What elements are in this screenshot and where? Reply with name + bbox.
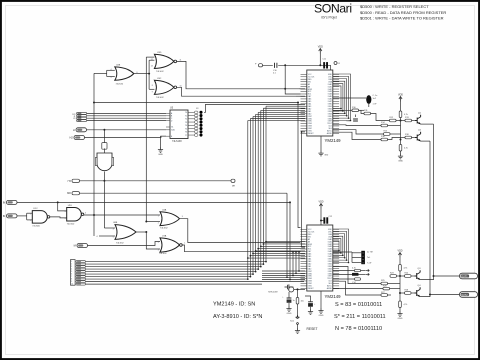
ground analog bottom: [397, 311, 402, 316]
svg-text:AGND: AGND: [327, 287, 333, 290]
wire U7A output to IC2: [182, 245, 300, 252]
svg-text:9: 9: [71, 281, 72, 283]
wire mix A node: [396, 120, 405, 122]
junction dot U2B out: [148, 73, 150, 75]
ribbon connector pin pads: [76, 261, 86, 286]
svg-text:S = 83 = 01010011: S = 83 = 01010011: [335, 302, 382, 308]
svg-text:1: 1: [158, 216, 159, 218]
capacitor C11 polarized on rail: [323, 62, 325, 68]
wire to OUT2 connector: [430, 294, 460, 296]
junction dot U6B out: [145, 231, 147, 233]
svg-text:GND: GND: [398, 161, 403, 163]
capacitor C14 black: [352, 273, 359, 276]
wire header top to IC1 A9 pin: [204, 104, 302, 112]
svg-text:GND: GND: [324, 155, 329, 157]
svg-text:Y6: Y6: [185, 132, 187, 134]
wire U6B out to riser: [136, 231, 146, 233]
wire VDD down to rail: [319, 54, 321, 66]
wire U4A output to IC2: [180, 219, 301, 243]
svg-text:Y5: Y5: [185, 128, 187, 130]
svg-text:74LS00: 74LS00: [32, 226, 40, 228]
svg-text:MR: MR: [232, 186, 236, 188]
decoder left pins: [166, 113, 170, 136]
svg-text:iOr's Projet: iOr's Projet: [321, 16, 337, 20]
dots on IC2 control drops: [286, 270, 300, 280]
junction dots on IC2 loopbacks: [338, 250, 349, 264]
svg-text:U4A: U4A: [162, 208, 167, 211]
svg-text:74LS02: 74LS02: [159, 253, 167, 255]
junction dot buffer out: [103, 180, 105, 182]
resistor R12 mix A: [390, 119, 397, 122]
svg-text:7: 7: [71, 276, 72, 278]
resistor R10: [352, 109, 359, 112]
wire U1D output long line: [84, 214, 160, 216]
svg-text:Y0: Y0: [185, 112, 187, 114]
wire R29 to ground: [399, 308, 401, 312]
svg-text:2: 2: [158, 242, 159, 244]
wire U3D output run BDIR: [177, 61, 299, 88]
junction dot rail drop crossing: [284, 88, 286, 90]
svg-text:1u: 1u: [293, 300, 295, 302]
wire node to R18: [401, 137, 406, 139]
wire R10 to R11: [359, 109, 365, 111]
svg-text:H2: H2: [69, 136, 73, 140]
IC U9 YM2149 body: [307, 225, 333, 291]
wire C17 wiring: [310, 298, 312, 302]
svg-text:5: 5: [71, 271, 72, 273]
wire C16 to ground: [288, 303, 290, 306]
wire R17 to node: [400, 118, 402, 121]
wire IN2 to U1C: [17, 215, 27, 217]
wire VDD to IC2: [320, 209, 322, 226]
wire IN1 branch down to U1D input: [58, 202, 67, 211]
svg-text:74LS32: 74LS32: [116, 243, 124, 245]
wire to OUT1 connector: [434, 275, 461, 277]
ground under C17: [308, 309, 313, 314]
svg-text:C, 1n: C, 1n: [373, 95, 378, 97]
resistor R2 vertical: [102, 143, 107, 150]
wire riser to gate A and B inputs: [148, 60, 150, 89]
svg-text:5: 5: [111, 77, 112, 79]
wire R24 to Q3: [411, 275, 415, 277]
wire riser x146 to U7A input: [146, 232, 160, 249]
svg-text:Y4: Y4: [185, 125, 187, 127]
wire MR line: [80, 192, 288, 194]
decoder right pins to header: [188, 112, 195, 135]
svg-text:RESET: RESET: [307, 327, 318, 331]
svg-text:Y3: Y3: [185, 122, 187, 124]
output header J3 black pins: [199, 111, 202, 137]
nor-gate U3C: [154, 80, 174, 94]
wire 7B line: [80, 180, 232, 182]
wire H to decoder: [87, 129, 167, 131]
svg-text:VDD: VDD: [398, 94, 403, 97]
connector IN3 M: [77, 244, 88, 248]
wire T1 to IC2 reset pin: [294, 288, 306, 290]
svg-text:2: 2: [71, 264, 72, 266]
svg-text:VDD: VDD: [318, 201, 323, 204]
connector stub 7B: [72, 179, 80, 182]
svg-text:74LS138: 74LS138: [172, 140, 182, 143]
wire IC1 channel to mix: [359, 110, 365, 113]
header J4 right of IC2: [361, 251, 365, 264]
crystal stub right of rail: [334, 62, 337, 65]
wire node A to node2: [400, 121, 402, 144]
decoder ground stub: [161, 136, 167, 147]
svg-text:6: 6: [71, 274, 72, 276]
wire rail drop to control line: [285, 65, 300, 94]
VDD arrow above IC1: [319, 49, 322, 54]
svg-text:YM2149: YM2149: [325, 294, 342, 299]
resistor R25: [381, 282, 388, 285]
svg-text:SONari: SONari: [314, 2, 352, 16]
svg-text:4,7k: 4,7k: [404, 114, 408, 116]
IC U9 right pins: [333, 229, 339, 288]
junction dot OUT1 bus: [433, 275, 435, 277]
wire select drop to IC2 top: [298, 103, 301, 228]
wire Q2 emitter to out bus 2: [421, 140, 430, 142]
wire BDIR feed IC2 stub: [298, 252, 300, 271]
IC U8 right pins: [333, 74, 339, 133]
svg-text:2: 2: [158, 222, 159, 224]
svg-text:10k: 10k: [301, 301, 304, 303]
wire long select line y102: [94, 102, 298, 104]
wire VCC rail above IC1: [262, 64, 331, 66]
svg-text:4,7k: 4,7k: [352, 267, 356, 269]
svg-text:Y7: Y7: [185, 135, 187, 137]
wire mix node A bottom: [397, 275, 405, 277]
svg-text:11: 11: [180, 60, 182, 62]
svg-text:IN: IN: [3, 214, 6, 218]
wire cap stub: [321, 220, 323, 222]
svg-text:4,7k: 4,7k: [404, 148, 408, 150]
resistor R28 to Q4: [405, 292, 412, 295]
connector IN2: [7, 214, 18, 218]
svg-text:3: 3: [71, 266, 72, 268]
ferrite bead L1: [366, 95, 371, 104]
junction dots on loopbacks: [340, 108, 351, 122]
wire IN1 drop to IC2: [289, 202, 291, 279]
svg-text:4: 4: [65, 211, 66, 213]
wire feed mixer from IC2 chA: [333, 267, 381, 284]
svg-text:MR: MR: [67, 192, 71, 195]
svg-text:GND: GND: [319, 315, 324, 317]
svg-text:8: 8: [71, 279, 72, 281]
wire bead down: [368, 104, 370, 107]
connector block J1 4 pins: [77, 112, 87, 114]
svg-text:GND: GND: [398, 318, 403, 320]
wire U1C out to U1D: [50, 217, 67, 218]
svg-text:74LS32: 74LS32: [116, 84, 124, 86]
svg-text:M: M: [74, 244, 76, 248]
wire R15 wiring: [333, 130, 384, 134]
node dot mix B: [400, 139, 402, 141]
wire U2B output to riser: [134, 73, 149, 75]
wire IC1 ground stub: [320, 136, 322, 151]
svg-text:U7A: U7A: [162, 234, 167, 237]
svg-text:74LS02: 74LS02: [156, 71, 164, 73]
IC U9 left pins: [301, 229, 307, 288]
IC U8 YM2149 body: [307, 70, 333, 136]
wire out bus B down to OUT2: [429, 141, 431, 294]
svg-text:13: 13: [151, 65, 153, 67]
wire MR drop to IC2: [286, 193, 288, 277]
bus branch dots: [247, 241, 267, 259]
svg-text:10: 10: [71, 284, 73, 286]
ribbon wire 9: [86, 281, 305, 283]
wire out bus A down to OUT1: [433, 124, 435, 276]
svg-text:OUT2: OUT2: [461, 294, 468, 297]
svg-text:Y2: Y2: [185, 119, 187, 121]
ground under C16: [286, 306, 291, 311]
node dot mix A: [400, 120, 402, 122]
connector OUT1: [460, 273, 478, 279]
capacitor C17 polarized: [308, 302, 313, 304]
svg-text:10: 10: [180, 85, 182, 87]
ground under decoder: [158, 147, 163, 152]
resistor R24 to Q3: [405, 275, 412, 278]
resistor R14: [381, 124, 388, 127]
wire switch to ground: [297, 324, 299, 328]
junction dot IN1 at x57: [57, 201, 59, 203]
wire IC2 to J4 bracket: [333, 251, 352, 253]
junction dot IN1 at x290: [289, 201, 291, 203]
svg-text:H: H: [73, 128, 75, 132]
svg-text:Y1: Y1: [185, 115, 187, 117]
wire IN1 long line: [17, 201, 290, 203]
transistor Q3: [415, 270, 421, 279]
ground under IC1: [318, 151, 323, 156]
connector stub MR2: [72, 192, 80, 195]
node dot mix bottom B: [399, 292, 401, 294]
svg-text:9: 9: [152, 91, 153, 93]
wire Q4 emitter to OUT2: [420, 295, 430, 297]
IC U8 pin name text: [308, 74, 333, 135]
resistor R11: [364, 112, 371, 115]
ribbon wires: [86, 262, 267, 280]
capacitor C10 inline on rail: [273, 63, 278, 69]
wire node A to node B bottom: [399, 276, 401, 298]
wire riser x104 segment: [103, 130, 105, 143]
wire long riser x146 from top: [145, 57, 147, 221]
svg-text:4: 4: [113, 228, 114, 230]
wire Q3 emitter to OUT1: [420, 276, 433, 280]
connector stub F left of rail: [259, 64, 263, 67]
resistor R23 mix: [390, 275, 397, 278]
wire IN3 to U7A: [88, 242, 161, 246]
svg-text:RESET: RESET: [308, 133, 315, 135]
wire feedback riser x94: [93, 73, 95, 236]
resistor R17 pullup: [399, 111, 402, 118]
connector OUT2: [460, 292, 478, 298]
svg-text:1: 1: [184, 243, 185, 245]
wire BDIR to IC1 pin: [299, 88, 305, 90]
wire R25 to node: [388, 283, 401, 285]
wire VDD down bottom: [399, 258, 401, 265]
nor-gate U3D: [154, 54, 174, 68]
loopback wires right of IC1: [333, 74, 351, 121]
nor-gate U7A: [160, 238, 180, 252]
decoder U5 74LS138 body: [170, 110, 188, 139]
wire G1 input feed: [94, 72, 107, 74]
or-gate U2B: [115, 67, 134, 80]
wire IC1 channel A: [333, 109, 352, 111]
wire buffer output down: [103, 172, 105, 181]
resistor R26: [383, 287, 390, 290]
wire R13 to Q1 base: [412, 120, 416, 122]
svg-text:$D501 : WRITE - DATA WRITE TO: $D501 : WRITE - DATA WRITE TO REGISTER: [360, 15, 444, 20]
switch SW1: [297, 317, 299, 319]
transistor Q4: [415, 287, 421, 296]
connector IN1: [7, 200, 18, 204]
svg-text:8: 8: [152, 85, 153, 87]
svg-text:YM2149: YM2149: [325, 138, 342, 143]
svg-text:RESET: RESET: [308, 288, 315, 290]
resistor R22 pullup: [399, 265, 402, 272]
junction dot feedback nand line: [93, 214, 95, 216]
wire R21 down to switch: [297, 304, 299, 317]
node dot mix bottom A: [399, 275, 401, 277]
capacitor C12 at IC2: [323, 217, 325, 223]
wires J1 to decoder: [87, 112, 166, 114]
svg-text:U1C: U1C: [33, 208, 38, 210]
svg-text:6: 6: [137, 72, 138, 74]
wire R14 to node2: [388, 125, 401, 127]
capacitor C16 polarized: [287, 298, 292, 300]
data bus vertical lines: [248, 106, 266, 279]
loopback wires right of IC2: [333, 229, 349, 263]
arrow out 1: [366, 269, 370, 271]
junction dot H line: [103, 129, 105, 131]
bus staircase corner dots bottom: [247, 261, 267, 280]
svg-text:OUT1: OUT1: [461, 275, 468, 278]
ribbon connector J2: [71, 260, 76, 286]
wire IC1 pin to bead: [333, 97, 366, 99]
svg-text:VDD: VDD: [397, 250, 402, 253]
svg-text:1: 1: [30, 213, 31, 215]
svg-text:GND: GND: [158, 154, 163, 156]
nand-gate U1C: [32, 211, 47, 224]
wire BC1 feed IC2 stub: [295, 252, 297, 274]
wire T1 drop: [288, 292, 290, 298]
svg-text:AY-3-8910 - ID: S*N: AY-3-8910 - ID: S*N: [213, 314, 262, 320]
wire R19 to ground: [400, 151, 402, 154]
junction dot select corner: [297, 102, 299, 104]
capacitor C13: [353, 119, 358, 121]
svg-text:T+W: T+W: [367, 263, 371, 265]
svg-text:G1: G1: [171, 127, 173, 129]
wire resistor to gate: [103, 148, 105, 153]
svg-text:4,7k: 4,7k: [404, 304, 408, 306]
wire C13 stub: [355, 115, 357, 118]
resistor R18 to Q2: [405, 136, 412, 139]
svg-text:2: 2: [30, 220, 31, 222]
svg-text:3: 3: [182, 216, 183, 218]
wire R26 feed from IC2: [333, 288, 383, 290]
wire aux feed IC2 stub: [292, 252, 294, 276]
svg-text:4: 4: [111, 69, 112, 71]
resistor R29 lower pull bottom: [399, 298, 401, 301]
decoder pin labels: [171, 112, 187, 138]
wire U6B input A: [104, 227, 115, 229]
wire C14: [333, 273, 352, 275]
wire node to R28: [400, 292, 405, 294]
no-connect mark end of 7B line: [231, 179, 235, 182]
VDD arrow analog bottom: [398, 253, 401, 258]
wire to analog mix A: [371, 114, 390, 121]
junction dot on rail: [284, 64, 286, 66]
wire riser x146 branch U4A input: [146, 221, 160, 223]
svg-text:$D500 : READ - DATA READ FROM: $D500 : READ - DATA READ FROM REGISTER: [360, 10, 446, 15]
transistor Q2: [415, 132, 421, 141]
wire feed mixer from IC2 chC: [333, 281, 381, 295]
wire riser x104 lower: [103, 181, 105, 228]
svg-text:74HC4069: 74HC4069: [268, 292, 278, 294]
svg-text:S* = 211 = 11010011: S* = 211 = 11010011: [334, 314, 386, 320]
or-gate U6B: [115, 225, 136, 240]
resistor R16: [381, 138, 388, 141]
svg-text:12: 12: [151, 59, 153, 61]
wire R18 to Q2: [412, 137, 416, 139]
wire R27 to node: [388, 294, 392, 296]
or-gate U4A: [160, 212, 180, 226]
svg-text:U3D: U3D: [157, 52, 162, 54]
wire drops joining IC2 lower left pins: [262, 271, 305, 280]
nand-gate U1D: [67, 208, 82, 222]
svg-text:2x TM: 2x TM: [367, 251, 373, 253]
ground analog top: [398, 154, 403, 159]
output header pads: [195, 111, 198, 136]
resistor R19 lower pull: [400, 143, 402, 145]
wire mix channels B C entry: [378, 125, 381, 127]
svg-text:74LS32: 74LS32: [160, 228, 168, 230]
ground under switch: [295, 328, 300, 333]
mosfet T1: [285, 284, 294, 289]
svg-text:U2B: U2B: [116, 65, 121, 67]
resistor R15: [384, 133, 391, 136]
wire R22 to node: [399, 271, 401, 276]
resistor C15: [355, 278, 361, 280]
wire BC1 to IC1 pin: [296, 95, 305, 97]
wire IC1 channel B: [333, 124, 378, 127]
ribbon wire 10: [86, 283, 263, 285]
junction dot select pin: [301, 131, 303, 133]
svg-text:GND: GND: [287, 313, 292, 315]
IC U8 left pins: [301, 74, 307, 133]
svg-text:AGND: AGND: [327, 132, 333, 135]
wire R16 wiring: [333, 132, 381, 139]
svg-text:5: 5: [113, 236, 114, 238]
wire U1C input bracket: [26, 213, 28, 220]
VDD arrow above IC2: [319, 204, 322, 209]
svg-text:U1D: U1D: [68, 205, 73, 207]
svg-text:X3: X3: [73, 118, 75, 120]
arrow out 2: [366, 273, 370, 275]
svg-text:U6B: U6B: [113, 222, 118, 224]
svg-text:VDD: VDD: [318, 46, 323, 49]
bus top staircase to IC1: [248, 106, 305, 120]
wire Q1 emitter to out bus: [421, 123, 434, 125]
wire IC1 select to IC2 select: [302, 132, 306, 247]
VDD arrow analog top: [399, 97, 402, 102]
wire U3C output run BC1: [177, 87, 296, 96]
svg-text:3: 3: [85, 213, 86, 215]
resistor R21 vertical: [297, 289, 299, 297]
IC U9 pin name text: [308, 229, 333, 290]
wire U6B input B stub: [99, 235, 115, 237]
svg-text:5: 5: [65, 218, 66, 220]
ground under IC2: [320, 291, 322, 308]
